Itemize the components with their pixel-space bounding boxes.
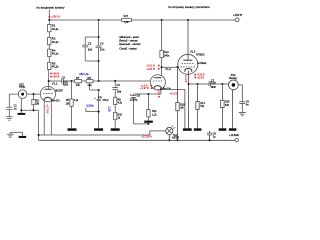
anode bar V1.2 bbox=[154, 77, 161, 79]
svg-text:40,2к: 40,2к bbox=[52, 52, 59, 56]
ground earth under C8 bbox=[239, 111, 246, 113]
svg-text:R7: R7 bbox=[76, 76, 80, 80]
chassis bar C5 column bbox=[111, 128, 120, 131]
resistor R9 bbox=[114, 97, 117, 104]
svg-text:+119 В: +119 В bbox=[196, 76, 204, 79]
triode V1.1 envelope bbox=[40, 86, 55, 101]
wire R15 column bbox=[221, 84, 223, 100]
node C3 output / grid-leak junction bbox=[70, 80, 72, 82]
svg-text:1μ: 1μ bbox=[213, 135, 216, 138]
grid V1.1 dashed bbox=[43, 93, 53, 95]
wire feedback bus bbox=[39, 139, 235, 141]
wire R14 column bbox=[197, 84, 199, 102]
node output tap bbox=[188, 83, 190, 85]
anode bar V1.3 bbox=[183, 59, 192, 61]
resistor R4 bbox=[48, 49, 51, 56]
svg-text:3,3Ом: 3,3Ом bbox=[86, 104, 94, 108]
svg-text:+4,2 В: +4,2 В bbox=[184, 75, 188, 83]
wire top rail left bbox=[49, 19, 121, 21]
svg-text:V1.2: V1.2 bbox=[165, 67, 171, 71]
svg-text:Rк=1,2к: Rк=1,2к bbox=[163, 88, 171, 90]
wire grid-leak drop bbox=[71, 81, 73, 99]
svg-text:240к: 240к bbox=[164, 54, 170, 58]
capacitor C8 bbox=[239, 101, 245, 103]
node grid-leak junction bbox=[32, 93, 34, 95]
node label anode V1.2 red bbox=[146, 64, 160, 71]
node rail to R13 bbox=[161, 19, 163, 21]
svg-text:40,2к: 40,2к bbox=[52, 27, 59, 31]
cathode arc V1.2 bbox=[154, 86, 161, 90]
svg-text:1М: 1М bbox=[76, 83, 80, 87]
wire R8 to junction bbox=[93, 80, 150, 82]
chassis bar grid resistor bbox=[68, 128, 77, 131]
svg-text:3н0: 3н0 bbox=[88, 47, 93, 51]
svg-text:40,2к: 40,2к bbox=[52, 65, 59, 69]
wire input left stub bbox=[9, 93, 18, 95]
resistor R13 bbox=[160, 50, 163, 57]
LED HL1 bbox=[166, 127, 173, 134]
resistor R3 bbox=[48, 38, 51, 45]
svg-text:3,3в: 3,3в bbox=[211, 82, 216, 85]
svg-text:1М: 1М bbox=[180, 107, 183, 110]
svg-text:6П36С: 6П36С bbox=[196, 52, 204, 56]
svg-text:470,0: 470,0 bbox=[102, 99, 109, 102]
resistor R16 bbox=[176, 103, 179, 111]
wire C7 to connector bbox=[211, 83, 229, 85]
svg-text:16в: 16в bbox=[117, 89, 122, 93]
wire bbox=[48, 32, 50, 38]
node rail to output tube anode bbox=[187, 19, 189, 21]
svg-text:+1,97 В: +1,97 В bbox=[140, 87, 149, 90]
svg-text:1к: 1к bbox=[118, 117, 121, 120]
svg-text:R17: R17 bbox=[124, 15, 129, 18]
svg-text:Синий - накал: Синий - накал bbox=[119, 47, 137, 51]
wire C6 bottom link bbox=[134, 123, 149, 125]
chassis bar R12 bbox=[144, 121, 153, 123]
svg-text:1М: 1М bbox=[66, 102, 69, 105]
svg-text:+131 В: +131 В bbox=[146, 67, 155, 71]
node wiper line bbox=[98, 89, 100, 91]
svg-text:Rк=17к: Rк=17к bbox=[52, 99, 61, 102]
svg-text:+12,34 В: +12,34 В bbox=[141, 134, 152, 138]
svg-text:510: 510 bbox=[225, 104, 230, 107]
wire V1.2 cathode bbox=[160, 87, 162, 94]
wire cathode column V1.3 bbox=[188, 71, 190, 129]
node R15 top bbox=[221, 83, 223, 85]
svg-text:4н: 4н bbox=[246, 103, 249, 106]
wire R16 column bbox=[177, 67, 179, 103]
svg-text:1,2к: 1,2к bbox=[152, 113, 157, 116]
svg-text:R8: R8 bbox=[87, 76, 91, 80]
wire grid link to output tube bbox=[162, 66, 179, 68]
svg-text:+: + bbox=[94, 97, 96, 100]
svg-text:R13: R13 bbox=[164, 50, 169, 54]
wire XS2 ground column bbox=[232, 90, 234, 129]
wire C3 to R7 bbox=[64, 80, 75, 82]
resistor R10 bbox=[114, 112, 117, 119]
svg-text:2В/1,4в: 2В/1,4в bbox=[79, 72, 89, 76]
node label +250V left red bbox=[48, 15, 60, 19]
chassis bar V1.3 cathode bbox=[183, 128, 192, 131]
wire grid resistor bottom bbox=[71, 106, 73, 128]
capacitor C9 bbox=[209, 131, 211, 133]
svg-text:4900: 4900 bbox=[211, 86, 217, 89]
wire cathode resistor column bbox=[184, 89, 186, 128]
wire hum line bbox=[86, 111, 99, 113]
svg-text:Ко входному каналу: Ко входному каналу bbox=[36, 6, 65, 10]
wire bbox=[48, 45, 50, 49]
wire ground bus bbox=[39, 134, 151, 136]
wire anode line to C3 bbox=[49, 80, 62, 82]
svg-text:+: + bbox=[130, 93, 132, 97]
svg-text:-0,9 В: -0,9 В bbox=[172, 93, 179, 95]
wire drop from input-channel label bbox=[48, 10, 50, 21]
wire bbox=[48, 57, 50, 63]
svg-text:+84 В: +84 В bbox=[52, 75, 59, 79]
svg-text:40,2к: 40,2к bbox=[52, 40, 59, 44]
svg-text:1М: 1М bbox=[36, 103, 39, 106]
trimmer R8 bbox=[86, 80, 93, 83]
svg-text:АЛ307: АЛ307 bbox=[172, 136, 180, 139]
wire R8 wiper to node bbox=[89, 83, 91, 90]
wire C2 bottom link bbox=[85, 60, 98, 62]
terminal feedback bbox=[235, 139, 238, 142]
svg-text:V1.3: V1.3 bbox=[190, 49, 196, 53]
node top rail junction at resistor chain bbox=[48, 19, 50, 21]
wire R13 feed bbox=[161, 20, 163, 50]
wire top rail right bbox=[132, 19, 236, 21]
svg-text:10к: 10к bbox=[87, 83, 92, 87]
wire LED feed bbox=[149, 131, 151, 135]
svg-text:Красный - катод: Красный - катод bbox=[119, 42, 141, 46]
chassis bar XS2 bbox=[229, 128, 237, 131]
cathode arc V1.3 bbox=[185, 68, 192, 71]
resistor R17 rail bbox=[122, 19, 132, 22]
connector XS2 output jack bbox=[229, 80, 239, 90]
svg-text:10н: 10н bbox=[100, 47, 105, 51]
wire anode column V1.1 bbox=[48, 70, 50, 89]
connector XS1 input jack bbox=[18, 90, 27, 99]
svg-text:2н: 2н bbox=[14, 109, 17, 111]
trimmer R7 bbox=[75, 80, 82, 83]
svg-text:+250 В: +250 В bbox=[233, 13, 242, 17]
triode V1.2 envelope bbox=[150, 75, 165, 90]
ground pair symbol chassis bbox=[21, 132, 23, 136]
node label V1.3 red bbox=[194, 73, 205, 79]
resistor R12 bbox=[147, 94, 149, 110]
node R14 top bbox=[196, 83, 198, 85]
grid V1.2 dashed bbox=[153, 80, 163, 82]
wire C2C4 column to ground bbox=[98, 90, 100, 99]
wire output line bbox=[189, 83, 209, 85]
wire cathode leg 1 bbox=[43, 101, 45, 135]
svg-text:Iа=60мА: Iа=60мА bbox=[197, 62, 206, 65]
screen grid dashed bbox=[182, 63, 195, 65]
wire ground link bbox=[21, 109, 38, 111]
wire C5 column bbox=[114, 81, 116, 87]
chassis bar C2C4 bbox=[94, 128, 103, 131]
wire C8 link bbox=[238, 84, 242, 86]
resistor R6 bbox=[48, 62, 51, 69]
svg-text:1,2В: 1,2В bbox=[108, 106, 112, 112]
node rail to C2C4 bbox=[98, 19, 100, 21]
ground pair symbol earth bbox=[10, 131, 22, 133]
svg-text:Выход: Выход bbox=[229, 77, 237, 80]
svg-text:+10,5мВ: +10,5мВ bbox=[229, 134, 239, 137]
node main line x115.2 bbox=[114, 80, 116, 82]
capacitor C4 bbox=[96, 45, 102, 47]
resistor R5 grid leak bbox=[70, 99, 73, 106]
wire left U corner bbox=[38, 110, 40, 140]
node label cathode V1.2 red bbox=[140, 84, 152, 90]
svg-text:Ко второму каналу усилителя: Ко второму каналу усилителя bbox=[168, 5, 210, 9]
control grid dashed bbox=[181, 66, 196, 68]
svg-text:+1,74 В: +1,74 В bbox=[46, 104, 50, 113]
wire R13 to anode bbox=[161, 58, 163, 76]
node main line x98.6 bbox=[98, 80, 100, 82]
capacitor C1 bbox=[6, 106, 12, 108]
wire connector ground column bbox=[20, 98, 22, 110]
svg-text:Вход: Вход bbox=[19, 86, 25, 89]
svg-text:Жёлтый - анод: Жёлтый - анод bbox=[118, 35, 139, 39]
capacitor C3 bbox=[61, 79, 63, 84]
chassis bar R14 bbox=[194, 128, 202, 131]
cathode arc V1.1 bbox=[44, 97, 51, 101]
resistor R2 bbox=[32, 99, 35, 104]
tetrode V1.3 envelope bbox=[178, 54, 198, 74]
svg-text:С1: С1 bbox=[14, 105, 18, 107]
resistor R15 bbox=[221, 100, 224, 107]
svg-text:Белый - сетка: Белый - сетка bbox=[119, 39, 138, 43]
svg-text:4,3к: 4,3к bbox=[118, 102, 123, 105]
chassis bar under input bbox=[18, 113, 26, 115]
node V1.3 grid leak junction bbox=[176, 66, 178, 68]
svg-text:1,1в: 1,1в bbox=[74, 100, 79, 102]
wire C2 top link bbox=[85, 36, 98, 38]
wire C1 drop bbox=[8, 94, 10, 107]
capacitor C2 bbox=[82, 44, 88, 46]
ground earth under C1 bbox=[6, 116, 13, 118]
capacitor C5 bbox=[112, 87, 118, 89]
svg-text:V1.1: V1.1 bbox=[52, 81, 58, 85]
wire cathode leg 2 bbox=[50, 101, 52, 135]
wire input to grid bbox=[27, 93, 41, 95]
svg-text:51к: 51к bbox=[200, 105, 205, 108]
node anode/C3 junction bbox=[48, 80, 50, 82]
chassis bar R15 bbox=[219, 128, 227, 131]
wire R2 drop bbox=[33, 94, 35, 99]
svg-text:2200μ: 2200μ bbox=[130, 98, 138, 102]
wire LED to feedback bus bbox=[168, 135, 170, 141]
wire cathode feedback link bbox=[161, 88, 185, 90]
node label anode V1.1 red bbox=[50, 72, 60, 79]
wire cathode link bbox=[134, 93, 161, 95]
svg-text:С4: С4 bbox=[100, 41, 104, 45]
svg-text:6Н23П: 6Н23П bbox=[55, 89, 63, 92]
svg-text:С3: С3 bbox=[62, 76, 66, 79]
svg-text:+250 В: +250 В bbox=[51, 15, 60, 19]
wire C2C4 feed bbox=[98, 20, 100, 46]
capacitor C7 bbox=[208, 81, 210, 86]
svg-text:С6: С6 bbox=[137, 94, 141, 98]
resistor R14 bbox=[196, 102, 199, 110]
wire anode feed V1.3 bbox=[187, 20, 189, 60]
anode bar V1.1 bbox=[44, 88, 51, 90]
capacitor C6 electrolytic bbox=[133, 94, 135, 95]
svg-text:4900: 4900 bbox=[63, 83, 69, 86]
svg-text:С5: С5 bbox=[116, 83, 120, 87]
node label V1.3 grid red bbox=[170, 92, 178, 95]
node V1.2 anode bbox=[161, 66, 163, 68]
terminal +250V bbox=[235, 18, 239, 22]
svg-text:С2: С2 bbox=[88, 42, 92, 46]
resistor R1 bbox=[48, 25, 51, 32]
